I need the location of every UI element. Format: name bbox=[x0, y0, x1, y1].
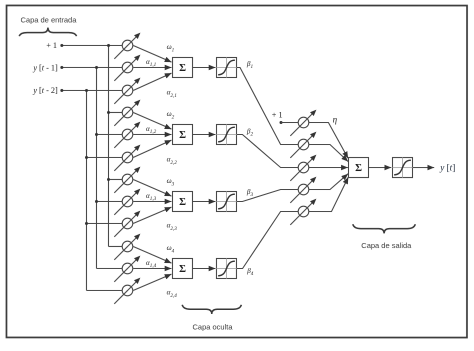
svg-text:Σ: Σ bbox=[179, 130, 186, 141]
svg-text:Σ: Σ bbox=[179, 197, 186, 208]
svg-text:+ 1: + 1 bbox=[272, 110, 283, 119]
svg-text:Σ: Σ bbox=[179, 264, 186, 275]
svg-text:+ 1: + 1 bbox=[46, 41, 57, 50]
svg-text:y [t]: y [t] bbox=[439, 162, 455, 172]
svg-text:Capa de salida: Capa de salida bbox=[361, 241, 412, 250]
svg-text:y [t - 1]: y [t - 1] bbox=[32, 64, 58, 73]
svg-text:Σ: Σ bbox=[355, 163, 362, 174]
svg-text:Σ: Σ bbox=[179, 63, 186, 74]
svg-text:y [t - 2]: y [t - 2] bbox=[32, 86, 58, 95]
svg-text:Capa de entrada: Capa de entrada bbox=[21, 15, 78, 24]
svg-text:η: η bbox=[333, 115, 338, 125]
svg-text:Capa oculta: Capa oculta bbox=[192, 322, 233, 331]
